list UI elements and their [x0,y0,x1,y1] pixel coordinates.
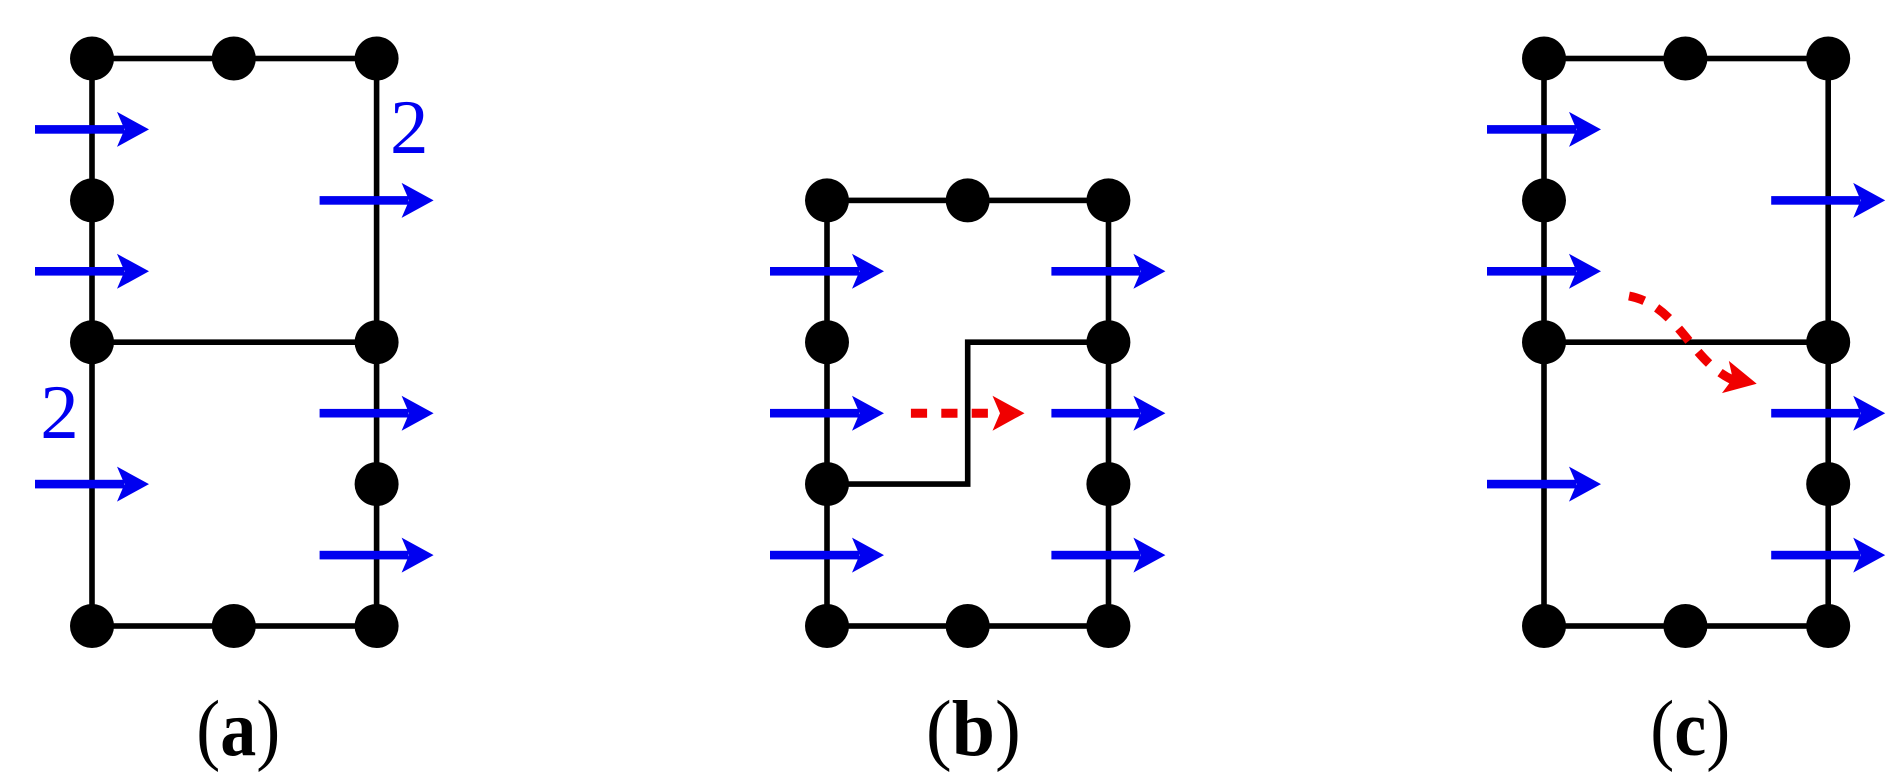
node: (c) bottom-left [1522,604,1566,648]
node: (c) left upper-middle [1522,178,1566,222]
arrow: (b) left edge row3 [770,254,884,289]
node: (a) bottom-right [355,604,399,648]
node: (b) top-middle [946,178,990,222]
arrow: (c) red dashed curved transfer arrow [1629,296,1760,400]
node: (c) bottom-middle [1663,604,1707,648]
node: (b) right middle-lower [1086,462,1130,506]
node: (a) right lower-middle [355,462,399,506]
node: (a) top-left [70,37,114,81]
node: (c) right lower-middle [1806,462,1850,506]
node: (b) left middle-lower [805,462,849,506]
svg-text:(b): (b) [926,685,1021,773]
arrow: (c) right edge row7 [1771,538,1885,573]
svg-text:(a): (a) [196,685,280,773]
arrow: (c) left edge row6 [1487,467,1601,502]
wire: middle horizontal edge of (a) [92,339,377,345]
node: (c) left middle [1522,320,1566,364]
node: (a) right middle [355,320,399,364]
node: (b) bottom-left [805,604,849,648]
arrow: (b) left edge row7 [770,538,884,573]
node: (a) top-right [355,37,399,81]
arrow: (a) right edge row7 [320,538,434,573]
wire: inner zigzag slit of (b) [827,342,1109,484]
svg-text:2: 2 [390,84,429,170]
svg-text:2: 2 [40,369,79,455]
node: (b) bottom-right [1086,604,1130,648]
arrow: (a) right edge row5 [320,396,434,431]
arrow: (b) red dashed transfer arrow [911,396,1025,431]
arrow: (c) left edge row1 [1487,112,1601,147]
node: (b) bottom-middle [946,604,990,648]
wire: outer rectangle of (a) [92,59,377,627]
node: (a) bottom-left [70,604,114,648]
arrow: (b) right edge row3 [1051,254,1165,289]
node: (b) left middle-upper [805,320,849,364]
arrow: (b) left edge row5 [770,396,884,431]
arrow: (b) right edge row5 [1051,396,1165,431]
node: (c) top-right [1806,37,1850,81]
arrow: (a) left edge row3 [35,254,149,289]
wire: outer rectangle of (c) [1544,59,1828,627]
wire: middle horizontal edge of (c) [1544,339,1828,345]
arrow: (c) right edge row5 [1771,396,1885,431]
node: (c) bottom-right [1806,604,1850,648]
node: (b) top-left [805,178,849,222]
arrow: (c) left edge row3 [1487,254,1601,289]
arrow: (c) right edge row2 [1771,183,1885,218]
arrow: (a) left edge row6 [35,467,149,502]
wire: outer rectangle of (b) [827,200,1109,626]
arrow: (b) right edge row7 [1051,538,1165,573]
node: (a) left upper-middle [70,178,114,222]
svg-text:(c): (c) [1650,685,1730,773]
node: (c) top-middle [1663,37,1707,81]
node: (b) right middle-upper [1086,320,1130,364]
node: (a) left middle [70,320,114,364]
node: (b) top-right [1086,178,1130,222]
arrow: (a) right edge row2 [320,183,434,218]
node: (c) right middle [1806,320,1850,364]
node: (a) bottom-middle [212,604,256,648]
node: (a) top-middle [212,37,256,81]
node: (c) top-left [1522,37,1566,81]
arrow: (a) left edge row1 [35,112,149,147]
